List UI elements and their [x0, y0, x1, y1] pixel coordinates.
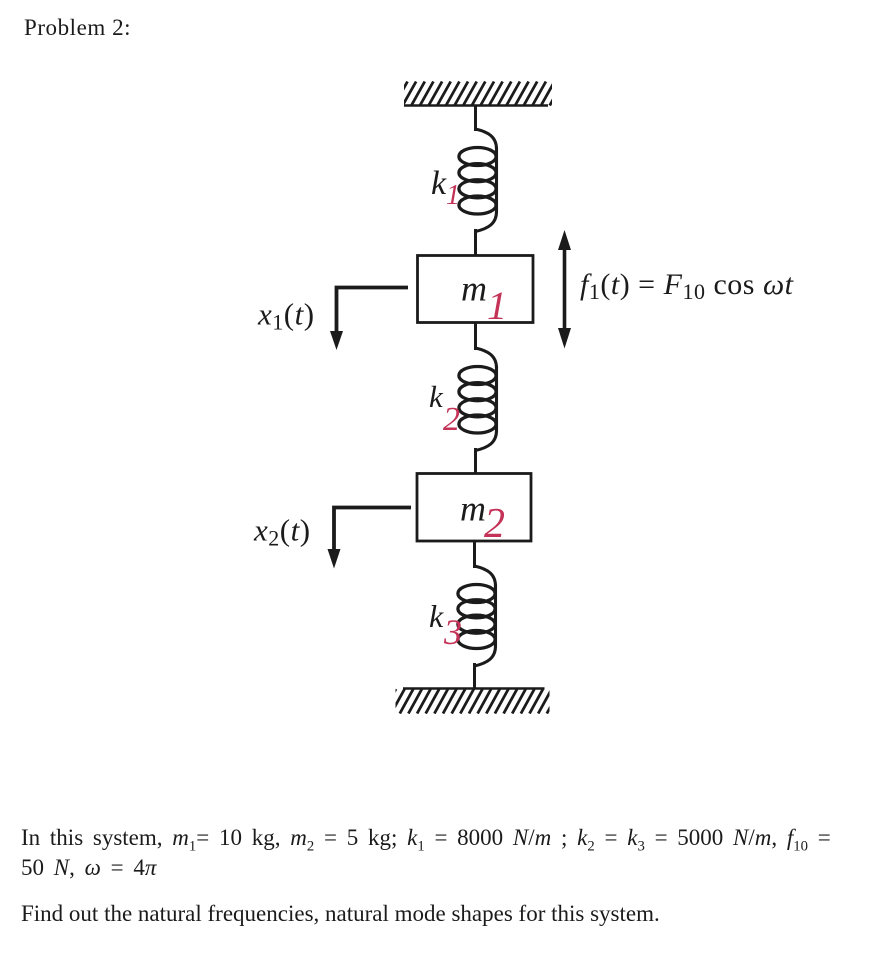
x2 arrow polyline [334, 508, 411, 554]
x1 arrowhead [330, 331, 343, 350]
spring k2 right side [495, 367, 498, 431]
spring k1 loop 1 [459, 148, 496, 166]
svg-text:f1(t) = F10 cos ωt: f1(t) = F10 cos ωt [580, 268, 794, 304]
spring k3 loop 3 [458, 615, 495, 633]
wire spring k1 to mass m1 [474, 229, 477, 256]
svg-text:2: 2 [484, 501, 505, 547]
spring k3 entry curve [475, 566, 496, 586]
spring k3 loop 1 [458, 585, 495, 603]
spring k2 loop 2 [459, 383, 496, 401]
x2 arrowhead [328, 549, 341, 569]
svg-text:k: k [429, 598, 444, 634]
wire mass m1 to spring k2 [474, 323, 477, 351]
force arrowhead top [558, 230, 571, 250]
paragraph system parameters line 2 [21, 855, 156, 881]
spring k1 loop 2 [459, 164, 496, 182]
wire spring k2 to mass m2 [474, 448, 477, 474]
spring k3 exit curve [475, 646, 496, 666]
spring k1 loop 3 [459, 180, 496, 198]
svg-text:k: k [431, 165, 447, 202]
ceiling hatch strokes [394, 82, 563, 106]
floor hatch strokes [383, 689, 561, 714]
spring k3 loop 4 [458, 631, 495, 649]
svg-text:1: 1 [446, 180, 460, 211]
spring k3 right side [494, 585, 497, 646]
force arrowhead bottom [558, 328, 571, 349]
svg-text:3: 3 [443, 612, 462, 652]
spring k2 entry curve [476, 348, 497, 368]
paragraph system parameters line 1 [21, 825, 831, 856]
svg-text:m: m [460, 489, 486, 529]
svg-text:x1(t): x1(t) [257, 297, 315, 335]
mass m1 box [418, 256, 534, 323]
spring k1 exit curve [476, 212, 497, 232]
ceiling line [404, 104, 548, 107]
spring k2 loop 3 [459, 399, 496, 417]
wire mass m2 to spring k3 [473, 541, 476, 568]
paragraph question [21, 901, 660, 927]
mass m2 box [417, 474, 531, 542]
svg-text:k: k [429, 379, 444, 414]
spring k2 loop 4 [459, 415, 496, 433]
svg-text:2: 2 [443, 401, 460, 438]
spring k1 entry curve [476, 129, 497, 149]
spring k2 exit curve [476, 431, 497, 451]
spring k1 right side [495, 148, 498, 212]
x1 arrow polyline [337, 288, 409, 337]
floor line [403, 687, 545, 690]
title Problem 2: [24, 15, 131, 41]
wire spring k3 to floor [473, 663, 476, 689]
wire ceiling to spring k1 [474, 106, 477, 132]
force double-headed arrow line [563, 243, 567, 335]
svg-text:m: m [461, 269, 487, 309]
svg-text:x2(t): x2(t) [253, 513, 311, 551]
svg-text:1: 1 [487, 283, 507, 328]
spring k2 loop 1 [459, 367, 496, 385]
spring k3 loop 2 [458, 600, 495, 618]
spring k1 loop 4 [459, 196, 496, 214]
